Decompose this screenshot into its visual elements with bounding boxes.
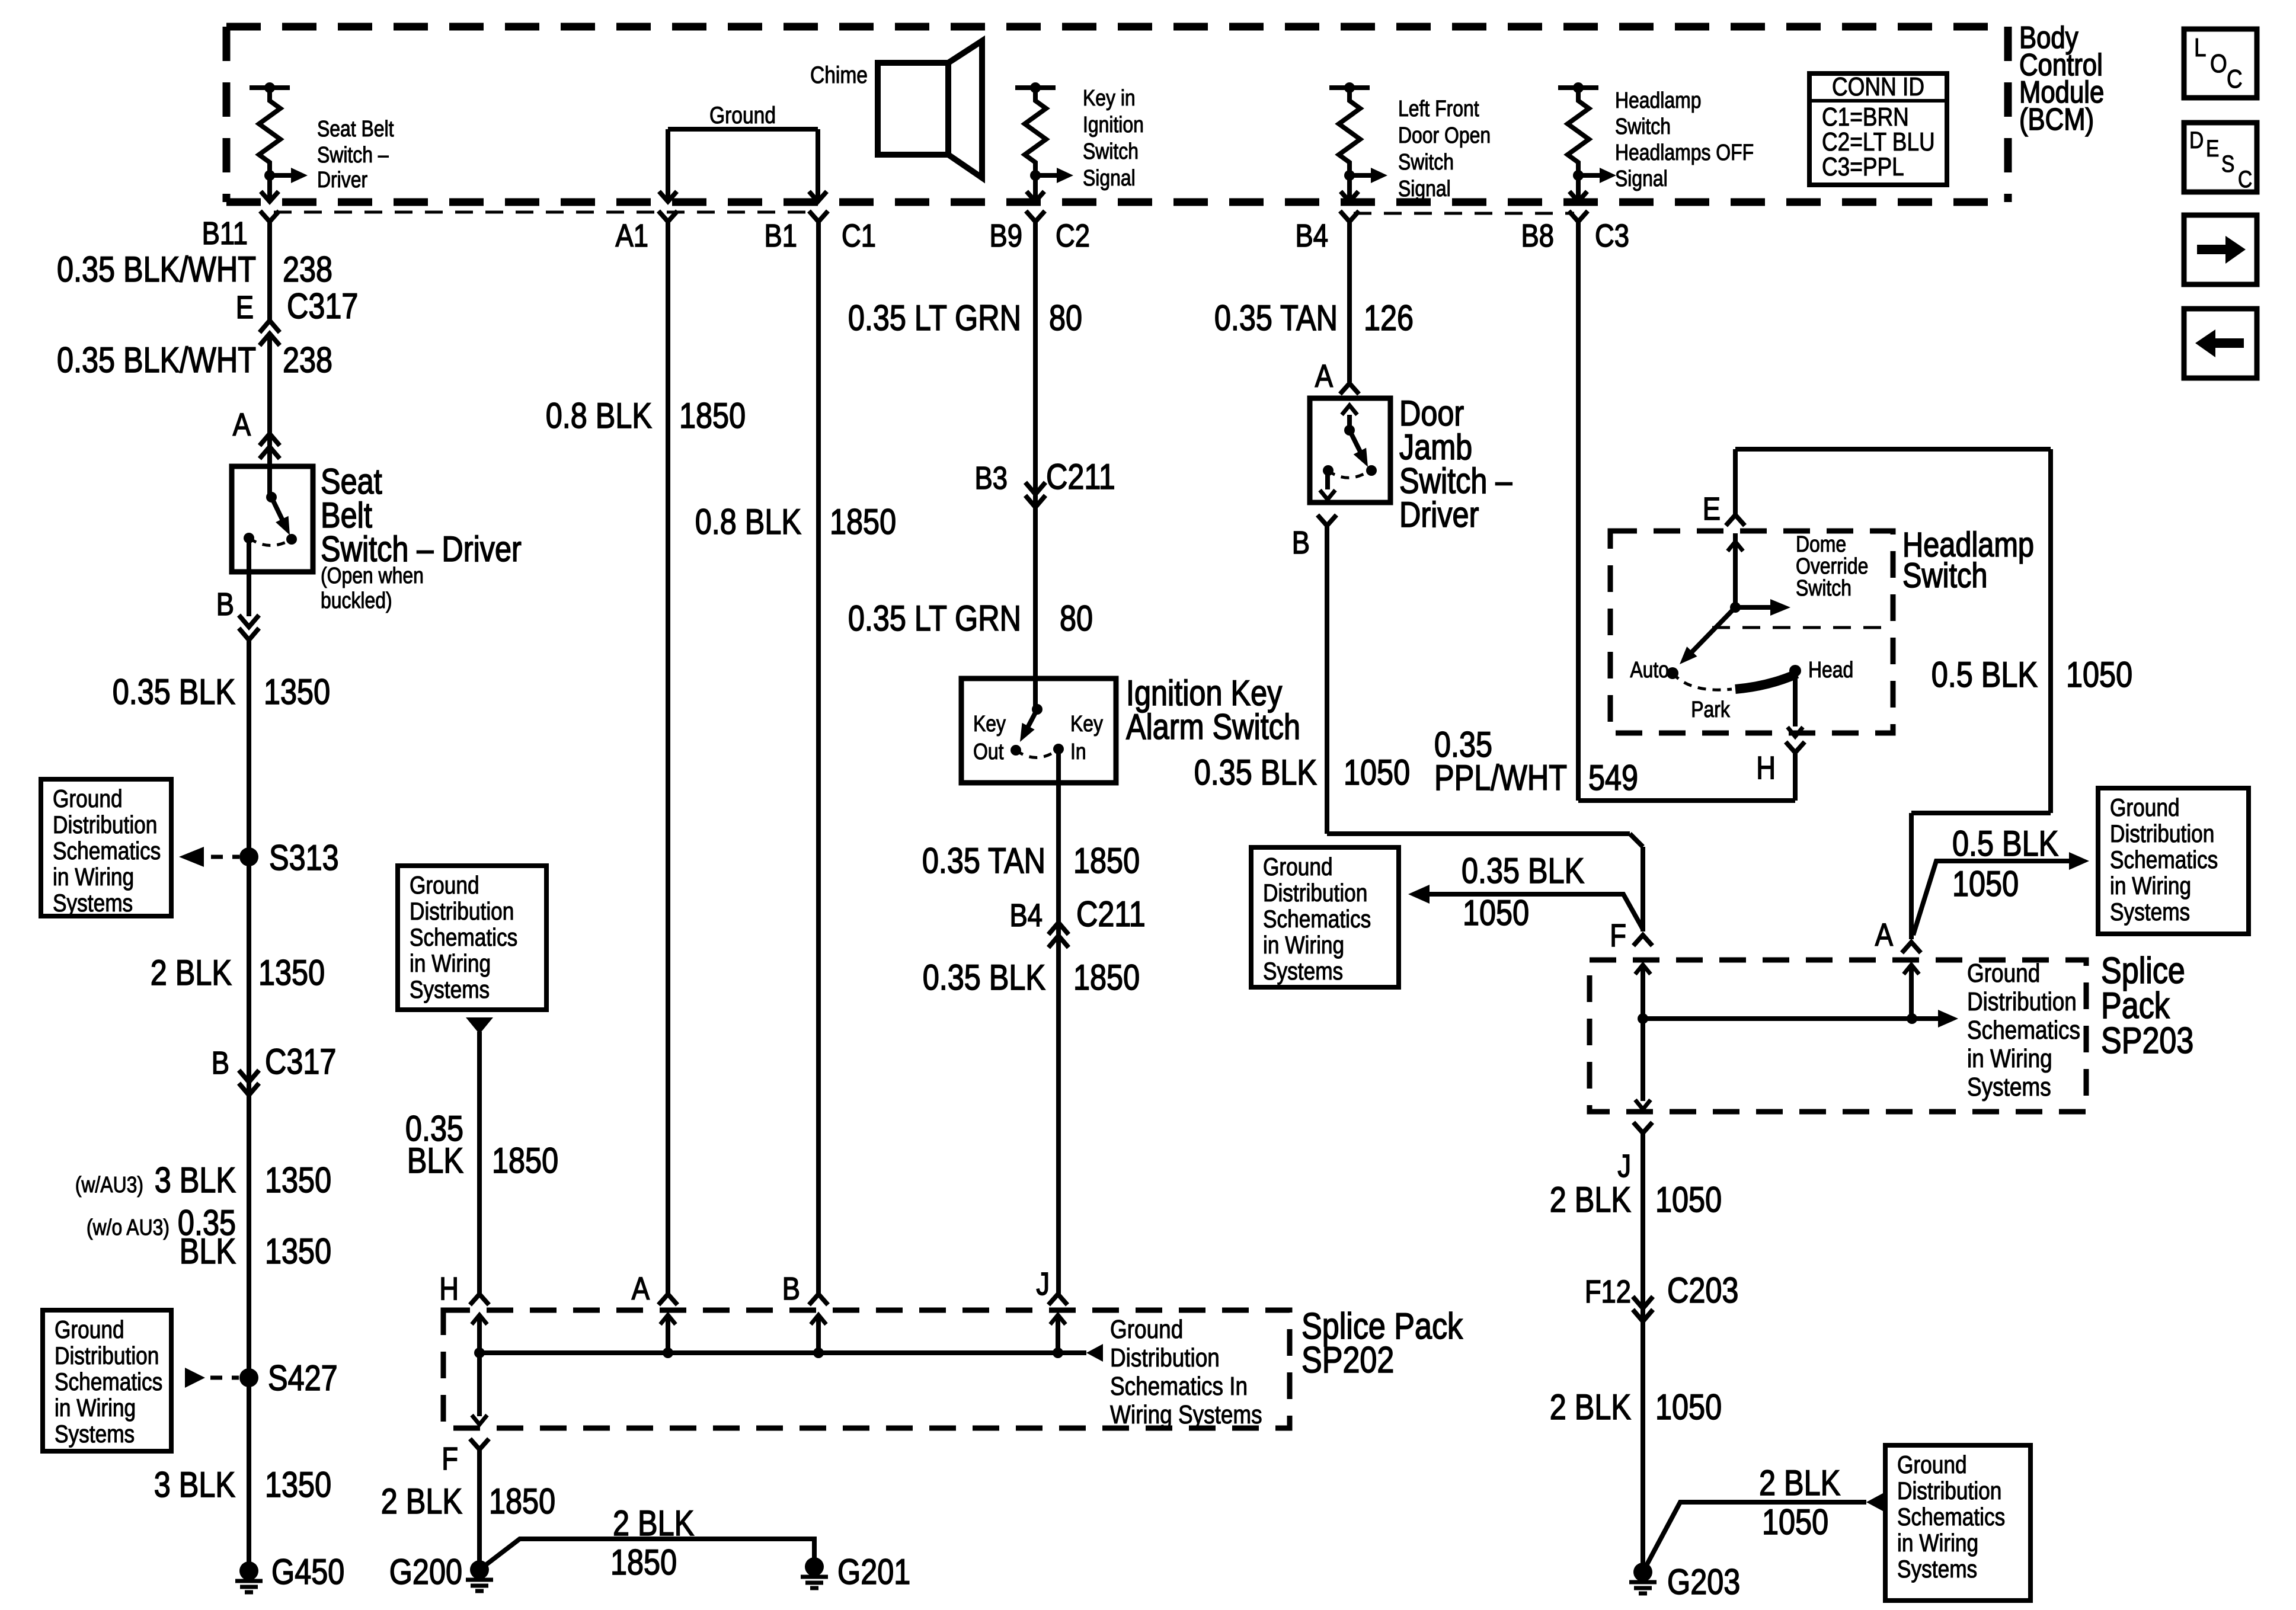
svg-text:Ground: Ground [2110, 794, 2180, 822]
ground distribution box 3 (door jamb) [1251, 847, 1399, 987]
svg-text:Signal: Signal [1615, 166, 1668, 191]
G203 branch to ground distribution [1643, 1502, 1866, 1572]
headlamp switch solid outline (wire route E) [1733, 449, 1738, 515]
svg-text:C1: C1 [842, 217, 876, 254]
svg-text:1350: 1350 [265, 1160, 331, 1200]
svg-text:Distribution: Distribution [1897, 1477, 2001, 1505]
svg-text:1350: 1350 [258, 953, 325, 993]
svg-text:Ground: Ground [410, 872, 479, 900]
svg-text:1850: 1850 [489, 1481, 555, 1521]
ground distribution box 1 [41, 779, 171, 916]
svg-text:549: 549 [1588, 758, 1638, 798]
svg-text:A1: A1 [616, 217, 648, 254]
ground distribution box 2 [43, 1310, 171, 1451]
svg-text:Ground: Ground [1263, 853, 1333, 881]
svg-text:Schematics: Schematics [55, 1368, 162, 1396]
svg-text:1050: 1050 [1463, 893, 1529, 933]
Head contact [1789, 665, 1801, 677]
svg-text:Override: Override [1796, 553, 1868, 578]
svg-text:C211: C211 [1046, 457, 1115, 497]
svg-text:G450: G450 [271, 1552, 344, 1592]
wire seat belt B to S313 [247, 538, 251, 616]
svg-text:Headlamps OFF: Headlamps OFF [1615, 140, 1754, 165]
svg-text:Distribution: Distribution [410, 898, 514, 926]
svg-text:C3: C3 [1595, 217, 1629, 254]
resistor: Key in Ignition Switch Signal [1015, 85, 1056, 90]
svg-text:1050: 1050 [1762, 1502, 1828, 1542]
ground G201 [805, 1557, 824, 1576]
ignition key alarm switch box [961, 678, 1116, 783]
right arrow box [2184, 215, 2257, 284]
svg-text:0.8 BLK: 0.8 BLK [546, 396, 652, 436]
wire B1 to SP202 [816, 222, 821, 1294]
svg-text:0.8 BLK: 0.8 BLK [695, 502, 801, 542]
svg-text:Distribution: Distribution [1110, 1343, 1220, 1372]
svg-text:0.35 BLK: 0.35 BLK [113, 672, 235, 712]
svg-text:Ground: Ground [55, 1316, 124, 1344]
solid triangle below box [466, 1017, 493, 1034]
svg-text:SP202: SP202 [1302, 1340, 1394, 1381]
svg-text:Distribution: Distribution [1263, 879, 1367, 907]
svg-text:Systems: Systems [2110, 898, 2190, 926]
svg-text:Dome: Dome [1796, 532, 1846, 556]
splice S427 [239, 1368, 258, 1387]
Body Control Module (BCM) dashed box [226, 27, 2008, 202]
svg-text:Park: Park [1691, 697, 1730, 722]
svg-text:Ground: Ground [709, 102, 776, 128]
svg-text:1850: 1850 [679, 396, 746, 436]
svg-text:G200: G200 [389, 1552, 462, 1592]
svg-text:0.5 BLK: 0.5 BLK [1952, 824, 2058, 863]
svg-text:S: S [2221, 151, 2234, 177]
door jamb pin B [1318, 515, 1336, 526]
svg-text:1850: 1850 [1073, 958, 1140, 997]
wire B8/C3 to headlamp switch H [1576, 222, 1581, 801]
key out contact [1011, 745, 1021, 756]
svg-text:Ignition: Ignition [1083, 112, 1144, 137]
svg-text:Switch: Switch [1796, 575, 1851, 600]
ground distribution box 5 (bottom right) [1885, 1445, 2030, 1601]
svg-text:2 BLK: 2 BLK [1550, 1180, 1631, 1219]
svg-text:0.35 BLK/WHT: 0.35 BLK/WHT [57, 249, 256, 289]
seat belt switch box [232, 466, 313, 572]
ground distribution box 6 (middle, H feed) [398, 866, 546, 1010]
wire G200 to G201 [479, 1539, 814, 1570]
svg-text:Distribution: Distribution [2110, 820, 2214, 848]
svg-text:J: J [1617, 1148, 1631, 1184]
left arrow box [2184, 309, 2257, 378]
svg-text:Wiring Systems: Wiring Systems [1110, 1400, 1262, 1429]
svg-text:Schematics: Schematics [2110, 846, 2218, 874]
dome override entry arrow [1733, 533, 1738, 607]
svg-text:B: B [1292, 524, 1310, 561]
wire B9 to ignition key alarm switch [1033, 222, 1038, 709]
svg-text:C317: C317 [287, 286, 358, 326]
svg-text:B4: B4 [1296, 217, 1328, 254]
switch arc [1328, 470, 1369, 478]
svg-text:Schematics: Schematics [410, 924, 517, 952]
svg-text:Key in: Key in [1083, 85, 1136, 110]
SP203 pin F [1633, 935, 1652, 946]
svg-text:1050: 1050 [1655, 1180, 1722, 1219]
SP202 entry funnels [470, 1294, 489, 1305]
svg-text:1850: 1850 [830, 502, 896, 542]
svg-text:Signal: Signal [1398, 176, 1451, 201]
svg-text:in Wiring: in Wiring [53, 863, 134, 891]
svg-text:Chime: Chime [810, 62, 868, 88]
svg-text:O: O [2210, 49, 2227, 78]
svg-text:2 BLK: 2 BLK [613, 1503, 694, 1543]
svg-text:E: E [1703, 491, 1721, 527]
svg-text:Systems: Systems [1897, 1555, 1977, 1583]
svg-text:(BCM): (BCM) [2019, 103, 2094, 137]
SP203 J exit [1641, 1019, 1645, 1101]
svg-text:Systems: Systems [55, 1420, 135, 1448]
svg-text:CONN ID: CONN ID [1832, 72, 1924, 101]
CONN ID table [1809, 73, 1947, 185]
svg-text:80: 80 [1060, 598, 1093, 638]
svg-text:0.35 BLK/WHT: 0.35 BLK/WHT [57, 340, 256, 380]
wire door jamb B to SP203 F [1325, 526, 1329, 834]
ground G203 [1633, 1563, 1652, 1582]
SP202 entry arrows [477, 1315, 482, 1353]
svg-text:0.35 LT GRN: 0.35 LT GRN [848, 298, 1021, 338]
SP202 bus [479, 1350, 1086, 1355]
S427 dashed pointer [185, 1368, 205, 1388]
svg-text:D: D [2189, 127, 2204, 153]
S313 dashed pointer to ground distribution [179, 847, 204, 867]
wire J to G203 [1641, 1133, 1645, 1572]
SP202 F exit [477, 1353, 482, 1416]
svg-text:Schematics: Schematics [1897, 1503, 2005, 1531]
svg-text:SP203: SP203 [2101, 1020, 2193, 1061]
svg-text:1050: 1050 [1952, 864, 2019, 904]
wire A1 to SP202 [666, 222, 670, 1294]
svg-text:1850: 1850 [610, 1542, 677, 1582]
ground G200 [470, 1560, 489, 1579]
svg-text:Switch: Switch [1615, 114, 1671, 139]
svg-text:Systems: Systems [1967, 1072, 2051, 1102]
wire F to G200 [477, 1449, 482, 1570]
svg-text:F12: F12 [1585, 1273, 1631, 1310]
svg-text:1350: 1350 [264, 672, 330, 712]
svg-text:Driver: Driver [1399, 495, 1479, 534]
chime speaker [878, 63, 948, 155]
svg-text:2 BLK: 2 BLK [381, 1481, 462, 1521]
svg-text:0.35 BLK: 0.35 BLK [1462, 851, 1584, 891]
svg-text:(Open when: (Open when [321, 563, 424, 588]
splice pack SP202 dashed box [443, 1310, 1290, 1428]
svg-text:BLK: BLK [180, 1231, 236, 1271]
svg-text:Ground: Ground [1897, 1451, 1967, 1479]
svg-text:2 BLK: 2 BLK [151, 953, 232, 993]
H pin exit [1793, 671, 1798, 726]
svg-text:C: C [2227, 64, 2243, 94]
SP203 bus [1643, 1016, 1939, 1021]
ground bracket (A1/B1) [668, 127, 818, 132]
svg-text:0.35 BLK: 0.35 BLK [1194, 753, 1317, 792]
svg-text:Schematics In: Schematics In [1110, 1371, 1248, 1401]
svg-text:B8: B8 [1521, 217, 1554, 254]
svg-text:C2: C2 [1056, 217, 1090, 254]
switch arc [1016, 749, 1059, 758]
svg-text:E: E [2206, 135, 2219, 161]
svg-text:Out: Out [973, 739, 1004, 764]
svg-text:Distribution: Distribution [53, 811, 157, 839]
svg-text:1350: 1350 [265, 1465, 331, 1505]
svg-text:B9: B9 [990, 217, 1022, 254]
svg-text:in Wiring: in Wiring [55, 1394, 136, 1422]
svg-text:Ground: Ground [1967, 958, 2040, 988]
splice S313 [239, 847, 258, 866]
switch arm [1350, 430, 1364, 460]
svg-text:(w/AU3): (w/AU3) [75, 1172, 143, 1197]
svg-text:F: F [442, 1441, 458, 1477]
BCM pins B11 A1 B1/C1 B9/C2 B4 B8/C3 [260, 211, 279, 222]
svg-text:F: F [1610, 917, 1626, 953]
Auto contact [1667, 667, 1678, 679]
inner dashed separator [1712, 626, 1893, 629]
svg-text:126: 126 [1364, 298, 1414, 338]
switch arm [271, 497, 287, 529]
splice pack SP203 dashed box [1590, 960, 2086, 1112]
key in contact [1053, 744, 1064, 754]
svg-text:B: B [782, 1270, 800, 1307]
svg-text:238: 238 [283, 249, 332, 289]
SP203 entry arrows [1641, 965, 1645, 1019]
LOC box [2184, 29, 2257, 98]
door jamb switch box [1310, 398, 1390, 502]
svg-text:3 BLK: 3 BLK [155, 1160, 236, 1200]
ground distribution box 4 (top right) [2098, 788, 2249, 934]
svg-text:80: 80 [1049, 298, 1082, 338]
svg-text:C211: C211 [1076, 894, 1146, 934]
svg-text:Systems: Systems [410, 976, 490, 1004]
dashed arc Auto-Park [1673, 673, 1732, 690]
svg-text:L: L [2194, 33, 2207, 62]
svg-text:Switch: Switch [1083, 139, 1139, 164]
svg-text:Switch: Switch [1398, 149, 1454, 174]
svg-text:Alarm Switch: Alarm Switch [1126, 707, 1300, 747]
svg-text:3 BLK: 3 BLK [154, 1465, 235, 1505]
svg-text:0.35 BLK: 0.35 BLK [923, 958, 1045, 997]
svg-text:Auto: Auto [1630, 657, 1669, 682]
svg-text:Left Front: Left Front [1398, 96, 1479, 121]
corner chamfer [1630, 834, 1643, 847]
resistor: Seat Belt Switch - Driver signal [250, 85, 290, 90]
svg-text:Headlamp: Headlamp [1615, 88, 1701, 113]
svg-text:Key: Key [973, 711, 1006, 736]
svg-text:in Wiring: in Wiring [1897, 1529, 1978, 1557]
svg-text:0.5 BLK: 0.5 BLK [1932, 655, 2038, 694]
switch arc [249, 538, 292, 546]
svg-text:Door Open: Door Open [1398, 123, 1491, 148]
svg-text:Distribution: Distribution [1967, 987, 2077, 1016]
svg-text:1350: 1350 [265, 1231, 331, 1271]
svg-text:H: H [1756, 750, 1776, 786]
svg-text:2 BLK: 2 BLK [1550, 1387, 1631, 1427]
svg-text:1850: 1850 [492, 1141, 558, 1180]
wire B4 to door jamb switch [1347, 222, 1352, 382]
svg-text:Systems: Systems [53, 889, 133, 917]
svg-text:Switch: Switch [1902, 557, 1987, 595]
switch arm to Auto [1690, 607, 1735, 654]
SP203 pin A + branch [1902, 942, 1921, 953]
svg-text:C: C [2238, 166, 2252, 192]
svg-text:S427: S427 [268, 1358, 338, 1398]
svg-text:buckled): buckled) [321, 588, 392, 613]
svg-text:Ground: Ground [53, 785, 123, 813]
svg-text:S313: S313 [269, 838, 339, 878]
svg-text:Seat Belt: Seat Belt [317, 116, 394, 141]
svg-text:C317: C317 [265, 1042, 336, 1081]
svg-text:(w/o AU3): (w/o AU3) [87, 1215, 170, 1240]
svg-text:Schematics: Schematics [1263, 905, 1371, 933]
svg-text:Distribution: Distribution [55, 1342, 159, 1370]
ground G450 [239, 1561, 258, 1580]
svg-text:C203: C203 [1667, 1270, 1738, 1310]
dome override branch arrow [1735, 605, 1770, 610]
svg-text:Schematics: Schematics [53, 837, 161, 865]
svg-text:B3: B3 [975, 460, 1008, 496]
connector C3 dashed line [1354, 212, 1574, 215]
svg-text:B: B [212, 1045, 229, 1081]
svg-text:2 BLK: 2 BLK [1759, 1463, 1840, 1503]
svg-text:Schematics: Schematics [1967, 1015, 2080, 1045]
svg-text:1850: 1850 [1073, 841, 1140, 881]
wire to SP202 H [477, 1032, 482, 1294]
headlamp switch dashed box [1610, 531, 1893, 733]
connector C1 dashed line [274, 211, 814, 214]
svg-text:in Wiring: in Wiring [2110, 872, 2191, 900]
svg-text:C3=PPL: C3=PPL [1822, 152, 1904, 181]
svg-text:Key: Key [1070, 711, 1103, 736]
svg-text:238: 238 [283, 340, 332, 380]
svg-text:Ground: Ground [1110, 1314, 1183, 1344]
svg-text:A: A [1875, 917, 1894, 953]
svg-text:E: E [236, 289, 254, 325]
svg-text:Head: Head [1808, 657, 1853, 682]
svg-text:B4: B4 [1010, 897, 1043, 933]
svg-text:H: H [439, 1270, 459, 1307]
svg-text:A: A [1315, 358, 1334, 394]
svg-text:0.35 TAN: 0.35 TAN [922, 841, 1045, 881]
svg-text:in Wiring: in Wiring [410, 950, 491, 978]
svg-text:0.35 TAN: 0.35 TAN [1214, 298, 1338, 338]
DESC box [2184, 123, 2257, 192]
svg-text:1050: 1050 [1344, 753, 1410, 792]
resistor: Left Front Door Open Switch Signal [1329, 85, 1370, 90]
svg-text:B1: B1 [765, 217, 797, 254]
svg-text:A: A [233, 406, 251, 443]
svg-text:0.35 LT GRN: 0.35 LT GRN [848, 598, 1021, 638]
svg-text:In: In [1070, 739, 1086, 764]
switch arm key out [1024, 709, 1037, 734]
svg-text:B11: B11 [202, 215, 248, 251]
svg-text:1050: 1050 [2066, 655, 2132, 694]
svg-text:G203: G203 [1667, 1562, 1740, 1602]
wire B11 to seat belt switch [267, 222, 272, 320]
svg-text:J: J [1036, 1266, 1050, 1302]
resistor: Headlamp Switch Headlamps OFF Signal [1558, 85, 1598, 90]
wiper thick arc at Head [1735, 674, 1797, 689]
svg-text:BLK: BLK [407, 1141, 463, 1180]
svg-text:1050: 1050 [1655, 1387, 1722, 1427]
svg-text:in Wiring: in Wiring [1263, 932, 1344, 959]
svg-text:A: A [632, 1270, 650, 1307]
svg-text:in Wiring: in Wiring [1967, 1044, 2052, 1073]
svg-text:PPL/WHT: PPL/WHT [1434, 758, 1567, 798]
svg-text:Signal: Signal [1083, 165, 1136, 190]
svg-text:Systems: Systems [1263, 958, 1343, 985]
wire key-in to SP202 J [1056, 749, 1061, 1294]
svg-text:Switch –: Switch – [317, 142, 389, 167]
branch arrow 0.35 BLK 1050 to ground distribution [1430, 894, 1643, 929]
svg-text:G201: G201 [837, 1552, 910, 1592]
svg-text:Driver: Driver [317, 167, 367, 192]
svg-text:B: B [216, 586, 234, 622]
